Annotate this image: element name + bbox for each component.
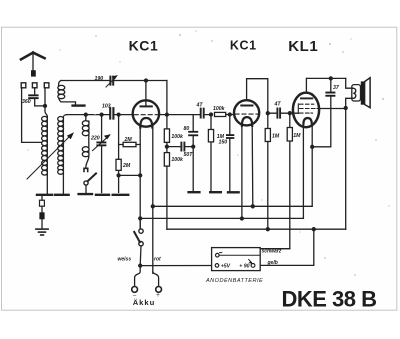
svg-text:KL1: KL1 (288, 38, 318, 55)
node C220 top (100, 113, 103, 116)
svg-text:100k: 100k (171, 157, 184, 163)
capacitor 4T coupling (201, 109, 204, 118)
antenna A (21, 53, 45, 77)
svg-text:Äkku: Äkku (133, 298, 156, 307)
triode tube V1 KC1 (133, 81, 159, 128)
node L4 top (84, 113, 87, 116)
resistor 1M grid leak V2 (208, 115, 213, 193)
wire S1 to coil L1 tap (22, 88, 42, 143)
svg-text:103: 103 (102, 104, 111, 110)
wire filament right (rot) down (152, 127, 154, 274)
coil L2 (tuning variometer) (58, 115, 67, 175)
bus1 filament+ rot (153, 205, 312, 207)
capacitor 150 (226, 115, 234, 193)
terminal akku minus (132, 287, 138, 293)
node anode V1 (145, 79, 148, 82)
triode tube V2 KC1 (234, 79, 259, 126)
capacitor 4T coupling 2 (277, 109, 280, 118)
capacitor 103 grid cap (110, 108, 113, 118)
ground bar under C220 (96, 194, 109, 196)
resistor 100k grid stopper (215, 112, 235, 116)
variometer arrow (27, 132, 74, 179)
socket S3 (44, 83, 49, 88)
svg-text:ANODENBATTERIE: ANODENBATTERIE (205, 278, 263, 284)
battery box Anodenbatterie (212, 248, 261, 271)
socket S1 (21, 83, 26, 88)
svg-text:50T: 50T (184, 152, 194, 158)
wire screen grid to B+ (319, 108, 346, 110)
speaker with output transformer (346, 78, 370, 230)
svg-text:+5V: +5V (221, 263, 231, 269)
node battery tap (139, 264, 142, 267)
pentode tube V3 KL1 (293, 78, 319, 127)
node grid leak top (117, 113, 120, 116)
svg-text:+: + (156, 293, 160, 299)
wire battery +5V (140, 265, 215, 267)
wire gelb riser (255, 229, 314, 265)
wire S2-S3 join (35, 105, 45, 107)
node grid leak V2 (210, 113, 213, 116)
svg-text:1M: 1M (293, 133, 301, 139)
node 37 top (329, 77, 332, 80)
ground bar under L2 (62, 174, 64, 195)
wire V3 filament left down (302, 124, 304, 218)
svg-text:+ 90: + 90 (239, 263, 249, 269)
svg-text:schwarz: schwarz (262, 249, 282, 255)
bus2 filament- weiss (140, 217, 303, 219)
svg-text:360: 360 (22, 99, 31, 105)
chassis bar for L3 (73, 104, 85, 106)
node coupling (266, 112, 269, 115)
svg-text:gelb: gelb (267, 260, 278, 266)
capacitor 50T (167, 143, 193, 151)
wire schwarz (260, 248, 290, 250)
wire V2 filament right down (251, 125, 254, 206)
wire feedback top (L3 to anode node) (61, 80, 167, 82)
anode node wire down right of V1 (166, 81, 168, 129)
earth chain: fuse box (39, 196, 44, 229)
svg-text:4T: 4T (274, 102, 282, 108)
svg-text:190: 190 (95, 76, 104, 82)
switch contact (84, 168, 88, 171)
ground bar under 80 (189, 191, 200, 193)
power switch on weiss wire (134, 218, 143, 265)
wire filament left (weiss) down (139, 127, 141, 229)
wire anode line to tube2 (159, 114, 211, 116)
coil L4 with switch (82, 115, 89, 168)
resistor 100k (anode load 1) (164, 129, 169, 143)
svg-text:80: 80 (184, 126, 190, 132)
coil L1 (tuning variometer) (42, 116, 48, 175)
node grid leak V3 (288, 112, 291, 115)
earth ground symbol (36, 229, 48, 235)
wire 2M chain to filament (119, 174, 141, 176)
ground bar under 150 (228, 191, 239, 193)
resistor 2M vertical (116, 115, 121, 193)
capacitor 80 (188, 115, 198, 193)
coil L3 feedback (58, 81, 76, 105)
trimmer capacitor 190 (106, 75, 118, 87)
ground bar under switch (79, 193, 92, 195)
svg-text:4T: 4T (196, 103, 204, 109)
wire akku plus (153, 271, 159, 286)
resistor 2M horizontal (119, 142, 141, 146)
variable capacitor 220 (93, 115, 111, 193)
svg-text:1M: 1M (272, 134, 280, 140)
svg-text:rot: rot (154, 257, 161, 263)
node 150 cap top (228, 113, 231, 116)
wire V2 anode U to 1M load (247, 79, 268, 129)
svg-text:KC1: KC1 (230, 38, 257, 52)
wire V3 filament right down (311, 124, 313, 206)
bus3 B+ 90V (167, 228, 346, 230)
switch lever S2 (84, 173, 96, 192)
svg-text:DKE 38 B: DKE 38 B (281, 286, 376, 311)
svg-text:weiss: weiss (118, 257, 132, 263)
svg-text:150: 150 (219, 140, 228, 146)
wire V2 filament left down (241, 125, 243, 219)
grid bus wire y=114.6 (67, 114, 133, 116)
svg-text:220: 220 (90, 136, 100, 142)
resistor 1M grid leak V3 (260, 113, 292, 248)
svg-text:100k: 100k (213, 106, 226, 112)
svg-text:KC1: KC1 (129, 38, 159, 54)
ground bar under 2M (113, 194, 129, 196)
wire V3 anode top (307, 77, 346, 79)
capacitor 37 (312, 78, 335, 146)
wire coupling to V3 grid (268, 112, 299, 114)
ground bar under L1 (46, 175, 48, 195)
ground bar under 1M (210, 191, 221, 193)
socket S2 (32, 83, 37, 88)
svg-text:2M: 2M (122, 163, 131, 169)
capacitor C 360 (28, 88, 38, 106)
resistor 1M anode load V2 (265, 129, 270, 230)
node S2S3 (44, 104, 47, 107)
wire S3 down to L1 top (45, 88, 47, 117)
svg-text:2M: 2M (124, 137, 133, 143)
scan speckles (noise) (28, 31, 390, 276)
resistor 100k (anode load 2) (164, 142, 169, 229)
terminal akku plus (156, 287, 162, 293)
svg-text:100k: 100k (171, 134, 184, 140)
wire akku minus (135, 266, 141, 287)
